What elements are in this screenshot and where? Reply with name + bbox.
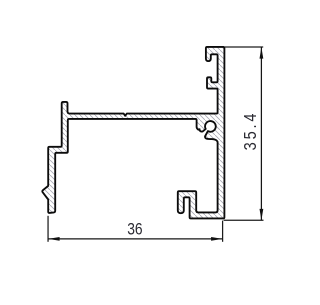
extension line bottom-right [222, 221, 224, 242]
dimension line 35.4 [260, 47, 262, 220]
arrow right of dim 36 [211, 237, 223, 241]
extension line top-right [225, 46, 263, 48]
svg-text:36: 36 [127, 220, 142, 238]
extension line bottom-right-horizontal [224, 219, 264, 221]
svg-text:35.4: 35.4 [242, 111, 260, 151]
arrow bottom of dim 35.4 [260, 209, 264, 220]
dimension line 36 [48, 238, 223, 240]
aluminium profile cross-section outline (hatched) [42, 47, 224, 219]
extension line bottom-left [47, 216, 49, 242]
arrow top of dim 35.4 [260, 47, 264, 58]
arrow left of dim 36 [48, 237, 60, 241]
